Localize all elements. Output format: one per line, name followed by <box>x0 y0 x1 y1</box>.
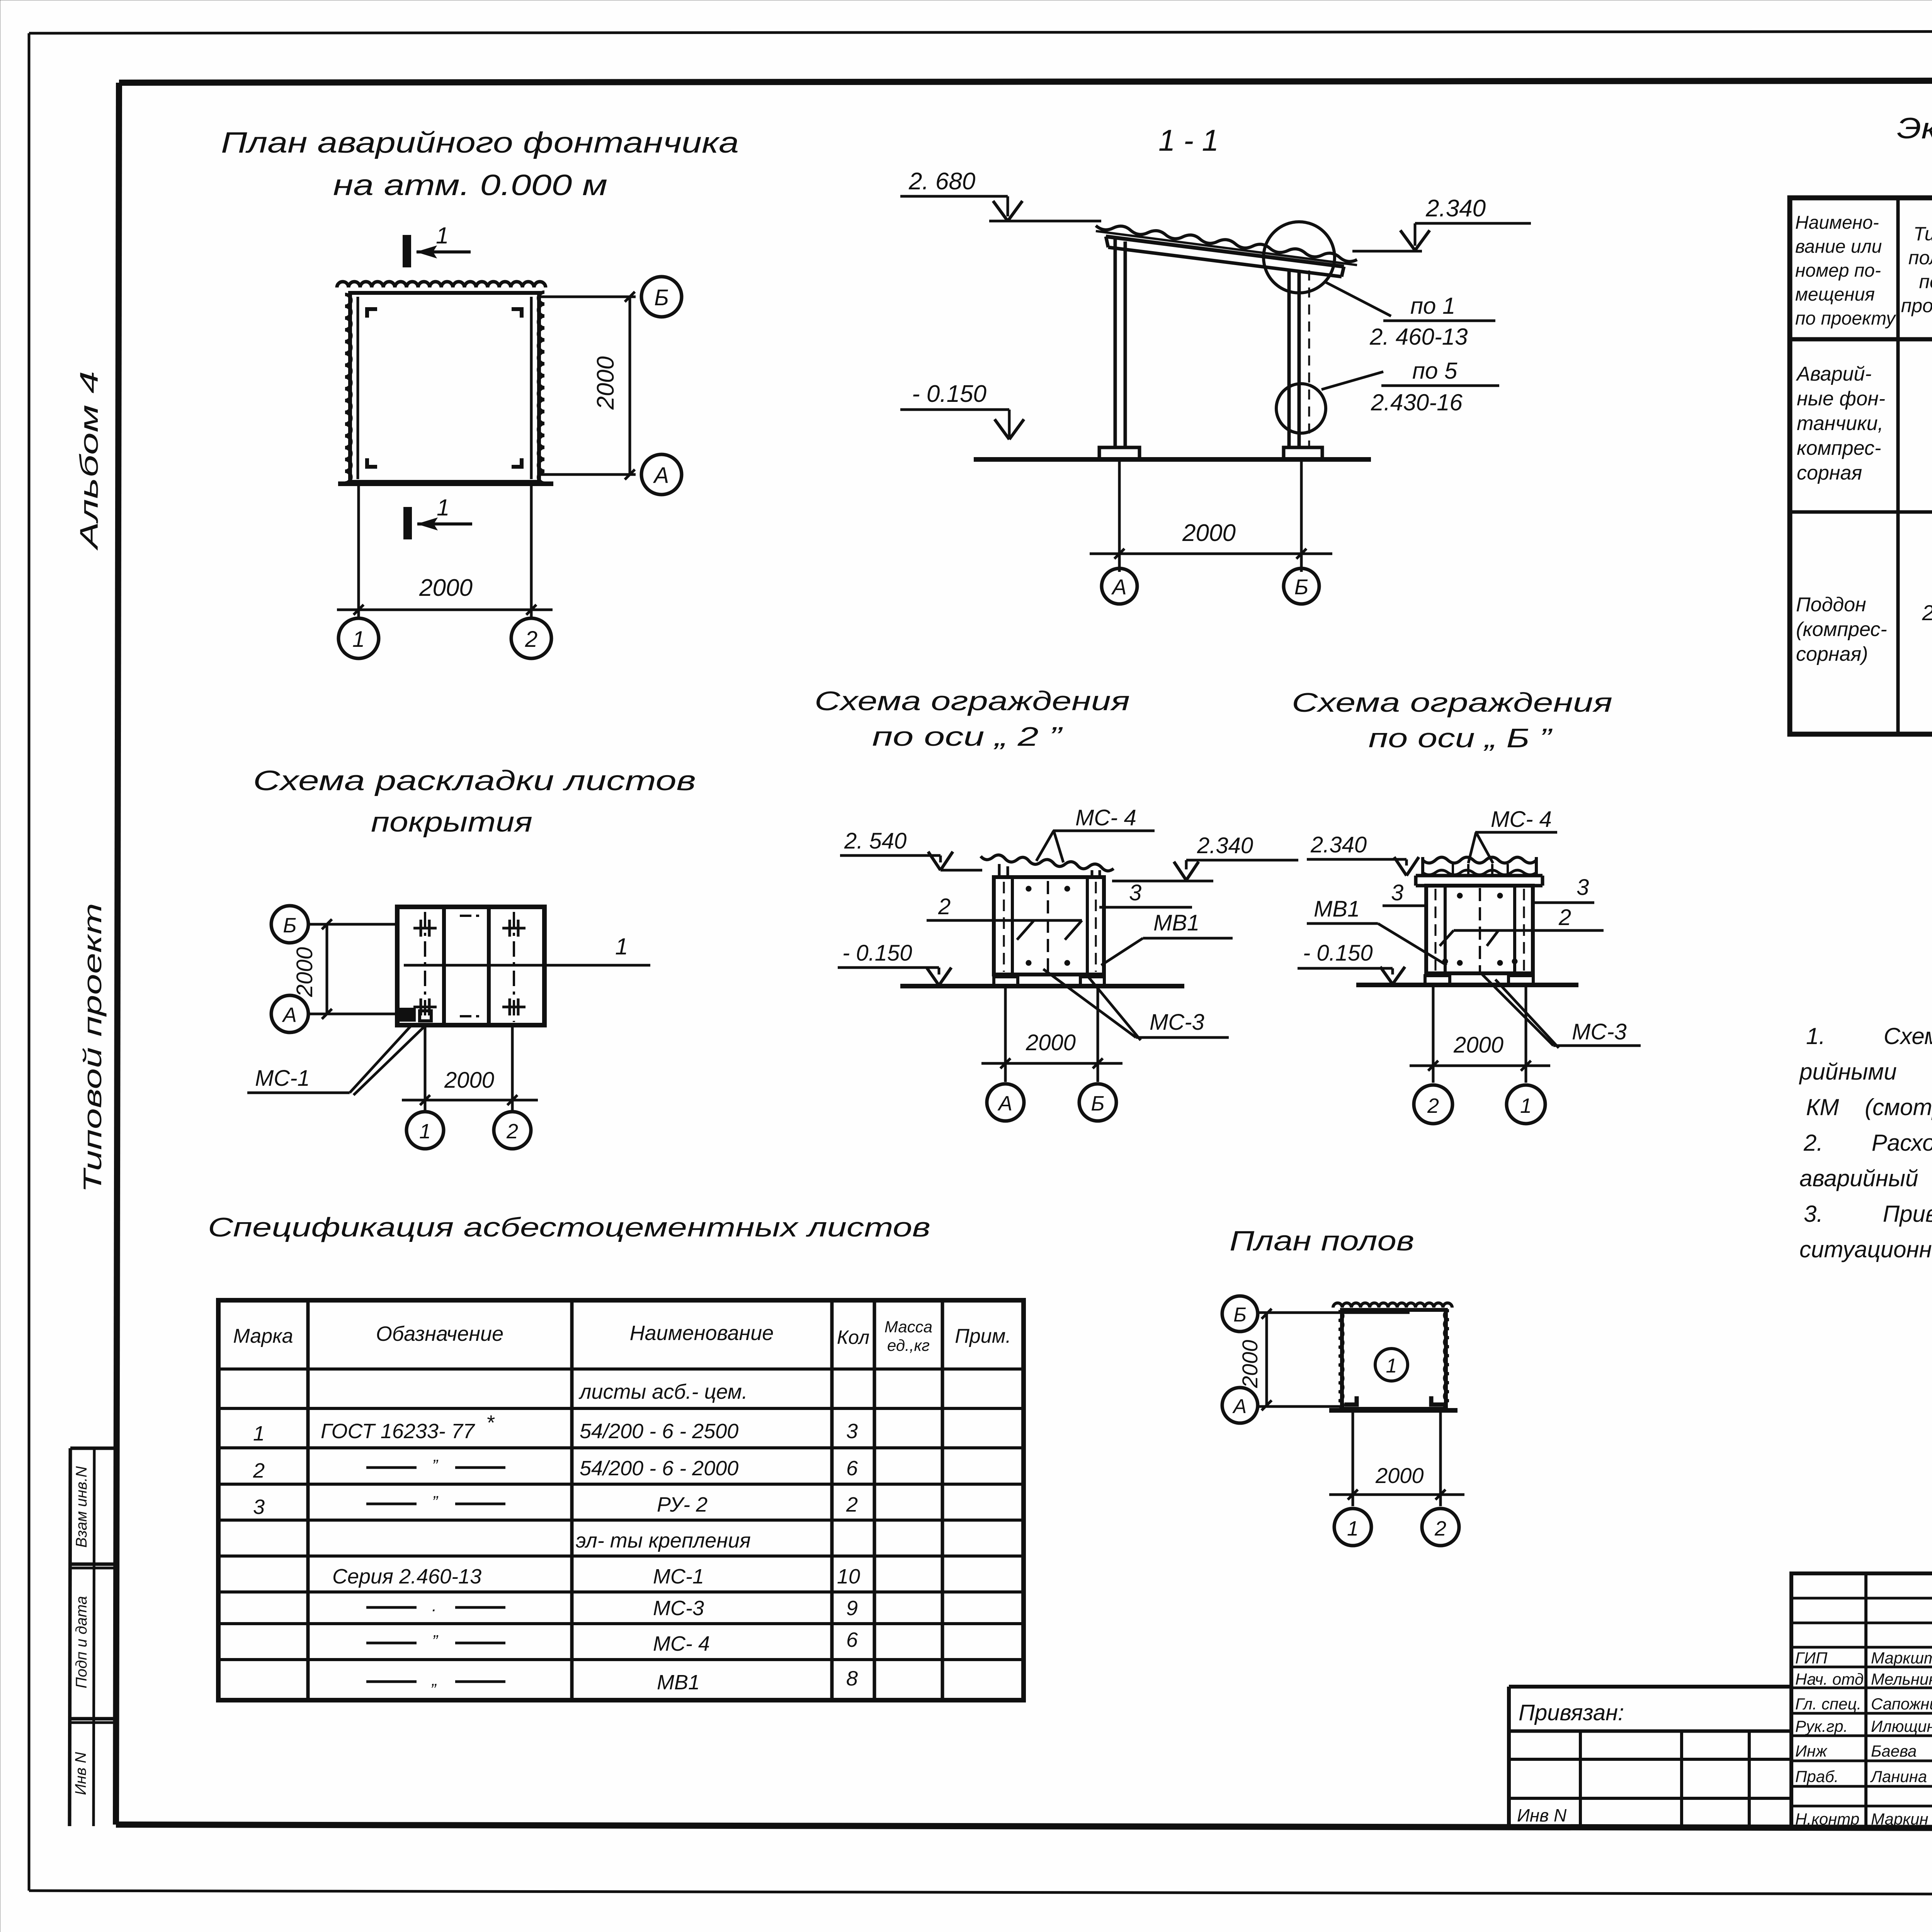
svg-text:2000: 2000 <box>592 356 619 410</box>
svg-text:2000: 2000 <box>1182 520 1236 546</box>
svg-text:1: 1 <box>615 934 628 959</box>
раскладка: axis Б circle <box>271 906 308 943</box>
svg-text:Схема ограждения: Схема ограждения <box>1292 687 1612 718</box>
svg-text:рийными фонтанчиками дана на л: рийными фонтанчиками дана на листах марк… <box>1799 1059 1932 1085</box>
спецификация: row МВ1 <box>366 1680 417 1683</box>
svg-text:покрытия: покрытия <box>371 807 532 838</box>
section: corrugated roof sheet <box>1096 226 1357 262</box>
план полов: axis Б <box>1222 1296 1258 1332</box>
svg-text:мещения: мещения <box>1795 284 1875 305</box>
раскладка: МС-1 fastener squares at bottom edge <box>401 1009 414 1020</box>
plan: section cut mark 1 (bottom) <box>403 507 412 539</box>
план полов: bottom dimension 2000, axes 1 2 <box>1352 1410 1354 1506</box>
раскладка: sheet axis dash-dot lines <box>424 912 426 1022</box>
svg-text:аварийный фонтанчик.: аварийный фонтанчик. <box>1799 1165 1932 1191</box>
svg-text:Спецификация асбестоцементны: Спецификация асбестоцементных листов <box>208 1212 930 1242</box>
осьБ: top rail double line <box>1416 874 1543 878</box>
svg-text:МС- 4: МС- 4 <box>1491 807 1552 832</box>
plan: bottom edge line <box>338 481 553 486</box>
svg-text:Б: Б <box>1233 1304 1247 1326</box>
план полов: circled 1 <box>1375 1349 1408 1381</box>
svg-text:МС-3: МС-3 <box>1150 1010 1204 1035</box>
svg-text:2: 2 <box>525 627 537 652</box>
осьБ: ground line <box>1356 983 1578 987</box>
svg-text:2.340: 2.340 <box>1425 195 1486 222</box>
svg-text:„: „ <box>431 1670 438 1689</box>
svg-text:1: 1 <box>1520 1094 1532 1117</box>
спецификация: row МС-4 <box>366 1642 417 1645</box>
svg-text:1: 1 <box>437 495 449 520</box>
svg-text:2: 2 <box>253 1459 265 1482</box>
svg-text:проек.: проек. <box>1901 295 1932 316</box>
svg-text:Обазначение: Обазначение <box>376 1322 503 1345</box>
раскладка: horizontal line to label 1 <box>404 964 650 967</box>
svg-text:3: 3 <box>846 1420 858 1443</box>
спецификация: row МС-3 <box>366 1606 417 1609</box>
svg-text:листы асб.- цем.: листы асб.- цем. <box>578 1380 748 1403</box>
section: detail circle small (по 5) <box>1276 384 1326 433</box>
svg-text:МВ1: МВ1 <box>1314 896 1360 922</box>
svg-text:2: 2 <box>846 1493 858 1516</box>
svg-text:РУ- 2: РУ- 2 <box>657 1493 707 1516</box>
svg-text:ГОСТ 16233- 77: ГОСТ 16233- 77 <box>321 1420 475 1443</box>
ось2: fence panel box <box>994 877 1104 975</box>
svg-text:на атм. 0.000 м: на атм. 0.000 м <box>333 169 607 202</box>
svg-text:по: по <box>1919 271 1932 293</box>
svg-text:по оси „ 2 ”: по оси „ 2 ” <box>872 721 1063 752</box>
svg-text:Сапожников: Сапожников <box>1871 1695 1932 1713</box>
svg-text:ед.,кг: ед.,кг <box>887 1336 930 1354</box>
svg-text:*: * <box>486 1411 495 1434</box>
подписи (signature table) <box>1791 1573 1932 1828</box>
svg-text:54/200 - 6 - 2000: 54/200 - 6 - 2000 <box>580 1457 738 1480</box>
план полов: axis А <box>1222 1388 1258 1423</box>
svg-text:МВ1: МВ1 <box>1153 910 1199 935</box>
svg-text:А: А <box>1232 1395 1247 1418</box>
svg-text:Привязан:: Привязан: <box>1519 1700 1624 1725</box>
svg-text:- 0.150: - 0.150 <box>842 940 912 966</box>
svg-text:сорная): сорная) <box>1796 643 1868 665</box>
svg-text:по оси „ Б ”: по оси „ Б ” <box>1369 723 1553 753</box>
plan: section cut mark 1 (top) <box>403 235 411 267</box>
plan: right vertical dimension 2000 <box>629 297 631 474</box>
section: left footing <box>1099 447 1139 459</box>
svg-text:по 1: по 1 <box>1410 293 1455 319</box>
svg-text:А: А <box>653 463 669 488</box>
inner drawing frame <box>119 80 1932 83</box>
осьБ: corrugated top band <box>1423 857 1536 863</box>
Привязан block <box>1509 1685 1791 1689</box>
svg-text:Альбом 4: Альбом 4 <box>75 371 103 551</box>
svg-text:А: А <box>1111 575 1126 599</box>
svg-text:.: . <box>432 1596 437 1615</box>
svg-text:Подп и дата: Подп и дата <box>73 1596 90 1688</box>
plan: corner post marks <box>367 309 377 318</box>
svg-text:Тип: Тип <box>1913 223 1932 245</box>
svg-text:2000: 2000 <box>444 1068 494 1093</box>
section: right post inner detail line <box>1308 270 1310 448</box>
svg-text:Мельников: Мельников <box>1871 1670 1932 1688</box>
svg-text:ситуационный план на листе: ситуационный план на листе 5. <box>1799 1236 1932 1262</box>
svg-text:(компрес-: (компрес- <box>1796 618 1887 641</box>
svg-text:Масса: Масса <box>884 1318 932 1336</box>
svg-text:1: 1 <box>352 627 365 652</box>
svg-text:План полов: План полов <box>1230 1226 1414 1257</box>
svg-text:2. 460-13: 2. 460-13 <box>1369 324 1468 350</box>
section: bottom dimension 2000 with axes А, Б <box>1118 460 1121 572</box>
section: roof beam <box>1106 236 1344 267</box>
svg-text:2.430-16: 2.430-16 <box>1371 389 1463 415</box>
svg-text:10: 10 <box>837 1565 860 1588</box>
svg-text:- 0.150: - 0.150 <box>912 381 986 407</box>
svg-text:Аварий-: Аварий- <box>1796 363 1872 385</box>
svg-text:МС- 4: МС- 4 <box>653 1632 710 1655</box>
svg-text:Схема раскладки листов: Схема раскладки листов <box>253 765 696 796</box>
svg-text:2: 2 <box>1434 1517 1446 1540</box>
plan: corrugated fence square <box>337 282 546 287</box>
svg-text:”: ” <box>432 1632 439 1651</box>
svg-text:Инж: Инж <box>1795 1742 1828 1760</box>
svg-text:Ланина: Ланина <box>1870 1767 1927 1786</box>
svg-text:А: А <box>282 1003 297 1027</box>
svg-text:Наимено-: Наимено- <box>1795 213 1879 233</box>
svg-text:Б: Б <box>1294 575 1308 599</box>
svg-text:Нач. отд: Нач. отд <box>1795 1670 1864 1688</box>
stamp strip boxes (Взам инв.№ / Подп и дата / Инв №) <box>70 1447 118 1450</box>
svg-text:эл- ты крепления: эл- ты крепления <box>576 1529 751 1552</box>
svg-text:3. Привязки аварийных фонтан: 3. Привязки аварийных фонтанчиков смотри <box>1804 1201 1932 1227</box>
svg-text:2.340: 2.340 <box>1310 832 1367 857</box>
svg-text:вание или: вание или <box>1795 236 1882 257</box>
svg-text:Рук.гр.: Рук.гр. <box>1795 1717 1848 1735</box>
svg-text:Инв N: Инв N <box>72 1752 89 1795</box>
план полов: left vertical dimension 2000 <box>1265 1314 1268 1405</box>
svg-text:2. Расход асбестоцементных лис: 2. Расход асбестоцементных листов дан на… <box>1803 1130 1932 1156</box>
svg-text:Гл. спец.: Гл. спец. <box>1795 1695 1861 1713</box>
svg-text:Маркштедер: Маркштедер <box>1871 1649 1932 1667</box>
ось2: fasteners dots <box>1026 886 1031 891</box>
осьБ: bottom axes and dimension <box>1432 985 1435 1083</box>
svg-text:8: 8 <box>846 1667 858 1690</box>
ось2: post top ticks <box>998 864 1001 877</box>
svg-text:Схема ограждения: Схема ограждения <box>815 686 1130 716</box>
план полов: corner marks <box>1345 1396 1359 1406</box>
plan: bottom dimension 2000 and axes 1,2 <box>357 484 360 617</box>
svg-text:по 5: по 5 <box>1412 358 1458 384</box>
svg-text:МС-3: МС-3 <box>1572 1019 1627 1044</box>
svg-text:МС-3: МС-3 <box>653 1597 704 1620</box>
svg-text:2.340: 2.340 <box>1197 833 1253 858</box>
svg-text:Взам инв.N: Взам инв.N <box>73 1466 90 1548</box>
svg-text:”: ” <box>432 1493 439 1512</box>
svg-text:ные фон-: ные фон- <box>1797 388 1885 410</box>
svg-text:Баева: Баева <box>1871 1742 1917 1760</box>
svg-text:2000: 2000 <box>419 575 473 601</box>
plan: axis Б leader and circle <box>539 296 636 298</box>
svg-text:2000: 2000 <box>1453 1032 1503 1058</box>
svg-text:Экспликация: Экспликация <box>1897 112 1932 145</box>
svg-text:Наименование: Наименование <box>630 1321 774 1345</box>
svg-text:1: 1 <box>253 1422 265 1445</box>
svg-text:Прим.: Прим. <box>955 1325 1011 1347</box>
svg-text:2: 2 <box>938 894 951 919</box>
plan: axis А leader and circle <box>539 473 636 476</box>
ось2: ground line <box>900 984 1184 988</box>
svg-text:1: 1 <box>419 1120 431 1143</box>
svg-text:Н.контр: Н.контр <box>1795 1810 1859 1828</box>
svg-text:Кол: Кол <box>837 1327 869 1348</box>
svg-text:1 - 1: 1 - 1 <box>1158 123 1219 157</box>
svg-text:1: 1 <box>1386 1355 1397 1377</box>
svg-text:Маркин: Маркин <box>1871 1810 1928 1828</box>
svg-text:3: 3 <box>1391 880 1403 905</box>
svg-text:2: 2 <box>506 1120 518 1143</box>
svg-text:План аварийного фонтанчика: План аварийного фонтанчика <box>221 126 739 159</box>
svg-text:Праб.: Праб. <box>1795 1767 1838 1786</box>
раскладка: fastener marks МС-1 <box>413 927 437 930</box>
section: right post <box>1287 270 1291 448</box>
section: detail circle big (по 1) <box>1264 222 1335 293</box>
svg-text:МВ1: МВ1 <box>657 1671 700 1694</box>
section: ground line <box>974 457 1371 462</box>
svg-text:Поддон: Поддон <box>1796 594 1866 616</box>
outer sheet border <box>28 33 31 1891</box>
svg-text:Серия 2.460-13: Серия 2.460-13 <box>332 1565 481 1588</box>
svg-text:6: 6 <box>846 1628 858 1651</box>
спецификация: table borders <box>218 1300 1024 1700</box>
раскладка: sheet layout rectangle <box>397 907 544 1025</box>
svg-text:танчики,: танчики, <box>1797 412 1883 435</box>
таблица экспликации полов: borders <box>1790 198 1932 734</box>
svg-text:54/200 - 6 - 2500: 54/200 - 6 - 2500 <box>580 1420 738 1443</box>
svg-text:2: 2 <box>1922 600 1932 625</box>
ось2: feet and footings <box>1002 975 1005 978</box>
section: left post <box>1114 238 1117 448</box>
svg-text:МС-1: МС-1 <box>653 1565 704 1588</box>
осьБ: fastener dots <box>1457 893 1463 898</box>
svg-text:2: 2 <box>1427 1094 1439 1117</box>
svg-text:2000: 2000 <box>1238 1340 1262 1388</box>
svg-text:3: 3 <box>1129 880 1141 905</box>
svg-text:6: 6 <box>846 1457 858 1480</box>
svg-text:2: 2 <box>1558 905 1571 930</box>
раскладка: left vertical dimension 2000 <box>326 924 328 1014</box>
ось2: bottom axes and dimension <box>1004 986 1007 1082</box>
осьБ: fence panel box <box>1426 886 1533 973</box>
svg-text:номер по-: номер по- <box>1795 260 1881 281</box>
svg-text:- 0.150: - 0.150 <box>1303 940 1373 966</box>
svg-text:2000: 2000 <box>1026 1030 1076 1055</box>
svg-text:1. Схема металлоконструкций на: 1. Схема металлоконструкций навесов над … <box>1806 1023 1932 1049</box>
ось2: corrugated top edge <box>981 855 1114 871</box>
раскладка: bottom dimension 2000, axes 1 2 <box>424 1025 427 1112</box>
svg-text:Инв N: Инв N <box>1517 1805 1567 1825</box>
svg-text:2. 680: 2. 680 <box>908 168 975 195</box>
svg-text:пола: пола <box>1908 247 1932 269</box>
svg-text:2000: 2000 <box>292 947 317 997</box>
svg-text:9: 9 <box>846 1597 858 1620</box>
svg-text:Б: Б <box>1091 1092 1104 1115</box>
svg-text:Б: Б <box>283 914 296 937</box>
svg-text:3: 3 <box>1577 875 1589 900</box>
svg-text:КМ (смотри лист 37 КМ ).: КМ (смотри лист 37 КМ ). <box>1806 1094 1932 1120</box>
svg-text:Б: Б <box>654 285 669 310</box>
svg-text:1: 1 <box>1347 1517 1359 1540</box>
svg-text:”: ” <box>432 1456 439 1475</box>
svg-text:1: 1 <box>436 223 449 248</box>
svg-text:3: 3 <box>253 1495 265 1519</box>
svg-text:А: А <box>997 1092 1012 1115</box>
svg-text:ГИП: ГИП <box>1795 1649 1828 1667</box>
план полов: bottom edge <box>1329 1408 1458 1413</box>
план полов: corrugated square <box>1333 1303 1452 1308</box>
section: right footing <box>1284 447 1322 459</box>
svg-text:Типовой проект: Типовой проект <box>78 903 107 1193</box>
svg-text:МС- 4: МС- 4 <box>1075 805 1136 830</box>
svg-text:компрес-: компрес- <box>1797 437 1881 459</box>
svg-text:Илющин: Илющин <box>1871 1717 1932 1735</box>
svg-text:2. 540: 2. 540 <box>844 828 906 854</box>
svg-text:МС-1: МС-1 <box>255 1066 310 1091</box>
svg-text:Марка: Марка <box>233 1325 293 1347</box>
осьБ: feet and footings <box>1433 973 1436 976</box>
svg-text:по проекту: по проекту <box>1795 308 1896 329</box>
svg-text:2000: 2000 <box>1375 1463 1424 1488</box>
svg-text:сорная: сорная <box>1797 462 1862 484</box>
раскладка: axis А circle <box>271 995 308 1032</box>
